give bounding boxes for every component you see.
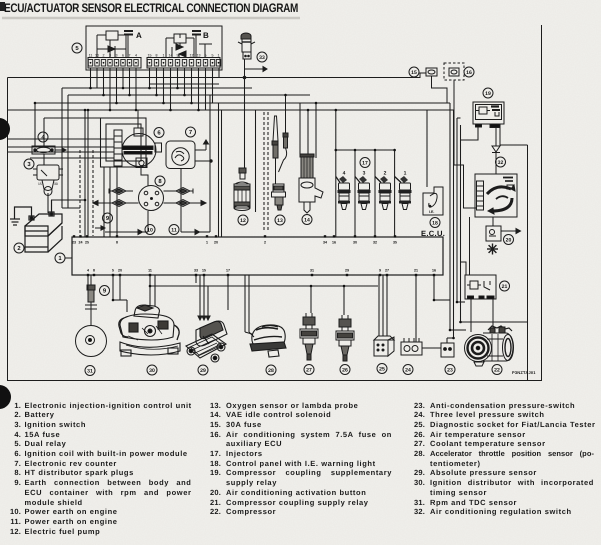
svg-text:23: 23 xyxy=(447,367,453,373)
svg-text:4: 4 xyxy=(135,54,137,58)
svg-text:17: 17 xyxy=(362,160,368,166)
svg-text:2: 2 xyxy=(384,171,387,177)
svg-text:15: 15 xyxy=(411,70,417,76)
svg-text:11: 11 xyxy=(148,269,152,273)
svg-text:1: 1 xyxy=(218,54,220,58)
svg-text:4: 4 xyxy=(87,269,89,273)
svg-text:10: 10 xyxy=(147,227,153,233)
svg-text:16: 16 xyxy=(332,241,336,245)
svg-text:15: 15 xyxy=(202,269,206,273)
svg-text:13: 13 xyxy=(197,54,201,58)
svg-text:26: 26 xyxy=(342,367,348,373)
svg-text:11: 11 xyxy=(89,54,93,58)
svg-text:24: 24 xyxy=(405,367,411,373)
svg-text:14: 14 xyxy=(304,217,310,223)
svg-text:30: 30 xyxy=(149,368,155,374)
svg-text:34: 34 xyxy=(323,241,327,245)
svg-text:A: A xyxy=(136,31,142,40)
svg-text:2: 2 xyxy=(184,54,186,58)
svg-text:1: 1 xyxy=(206,241,208,245)
svg-text:33: 33 xyxy=(259,55,265,61)
svg-text:2: 2 xyxy=(103,54,105,58)
svg-text:20: 20 xyxy=(506,237,512,243)
svg-text:19: 19 xyxy=(485,91,491,97)
svg-text:21: 21 xyxy=(502,284,508,290)
svg-text:24: 24 xyxy=(79,241,83,245)
svg-text:I.E.: I.E. xyxy=(429,210,434,214)
svg-text:17: 17 xyxy=(226,269,230,273)
svg-text:13: 13 xyxy=(277,218,283,224)
svg-text:23: 23 xyxy=(72,241,76,245)
svg-text:10: 10 xyxy=(95,54,99,58)
svg-text:32: 32 xyxy=(373,241,377,245)
svg-text:11: 11 xyxy=(171,227,177,233)
svg-text:4: 4 xyxy=(343,171,346,177)
svg-text:8: 8 xyxy=(93,269,95,273)
svg-text:35: 35 xyxy=(393,241,397,245)
svg-text:25: 25 xyxy=(379,366,385,372)
svg-text:5: 5 xyxy=(212,54,214,58)
svg-text:20: 20 xyxy=(118,269,122,273)
svg-text:20: 20 xyxy=(214,241,218,245)
svg-text:14: 14 xyxy=(169,54,173,58)
svg-text:9: 9 xyxy=(379,269,381,273)
svg-text:27: 27 xyxy=(306,367,312,373)
svg-text:29: 29 xyxy=(345,269,349,273)
svg-text:5: 5 xyxy=(205,54,207,58)
svg-text:5: 5 xyxy=(112,269,114,273)
svg-text:27: 27 xyxy=(385,269,389,273)
svg-text:30: 30 xyxy=(353,241,357,245)
svg-text:3: 3 xyxy=(109,54,111,58)
svg-text:21: 21 xyxy=(414,269,418,273)
svg-text:15: 15 xyxy=(148,54,152,58)
svg-text:2: 2 xyxy=(264,241,266,245)
svg-text:12: 12 xyxy=(190,54,194,58)
svg-text:28: 28 xyxy=(268,368,274,374)
svg-text:31: 31 xyxy=(87,368,93,374)
svg-text:25: 25 xyxy=(85,241,89,245)
svg-text:9: 9 xyxy=(177,54,179,58)
svg-text:E.C.U.: E.C.U. xyxy=(421,229,445,238)
svg-text:8: 8 xyxy=(156,54,158,58)
svg-text:8: 8 xyxy=(116,241,118,245)
svg-text:15: 15 xyxy=(38,182,42,186)
svg-text:32: 32 xyxy=(498,160,504,166)
svg-text:16: 16 xyxy=(432,269,436,273)
svg-text:18: 18 xyxy=(432,220,438,226)
svg-text:B: B xyxy=(203,31,209,40)
svg-text:29: 29 xyxy=(200,368,206,374)
svg-text:12: 12 xyxy=(240,218,246,224)
svg-text:P3NZTAJ01: P3NZTAJ01 xyxy=(512,370,536,375)
svg-text:31: 31 xyxy=(310,269,314,273)
svg-text:33: 33 xyxy=(194,269,198,273)
svg-text:3: 3 xyxy=(363,171,366,177)
svg-text:3: 3 xyxy=(116,54,118,58)
svg-text:7: 7 xyxy=(129,54,131,58)
svg-text:22: 22 xyxy=(494,367,500,373)
svg-text:1: 1 xyxy=(404,171,407,177)
svg-text:6: 6 xyxy=(122,54,124,58)
svg-text:16: 16 xyxy=(466,70,472,76)
svg-text:1: 1 xyxy=(163,54,165,58)
svg-text:30: 30 xyxy=(54,182,58,186)
